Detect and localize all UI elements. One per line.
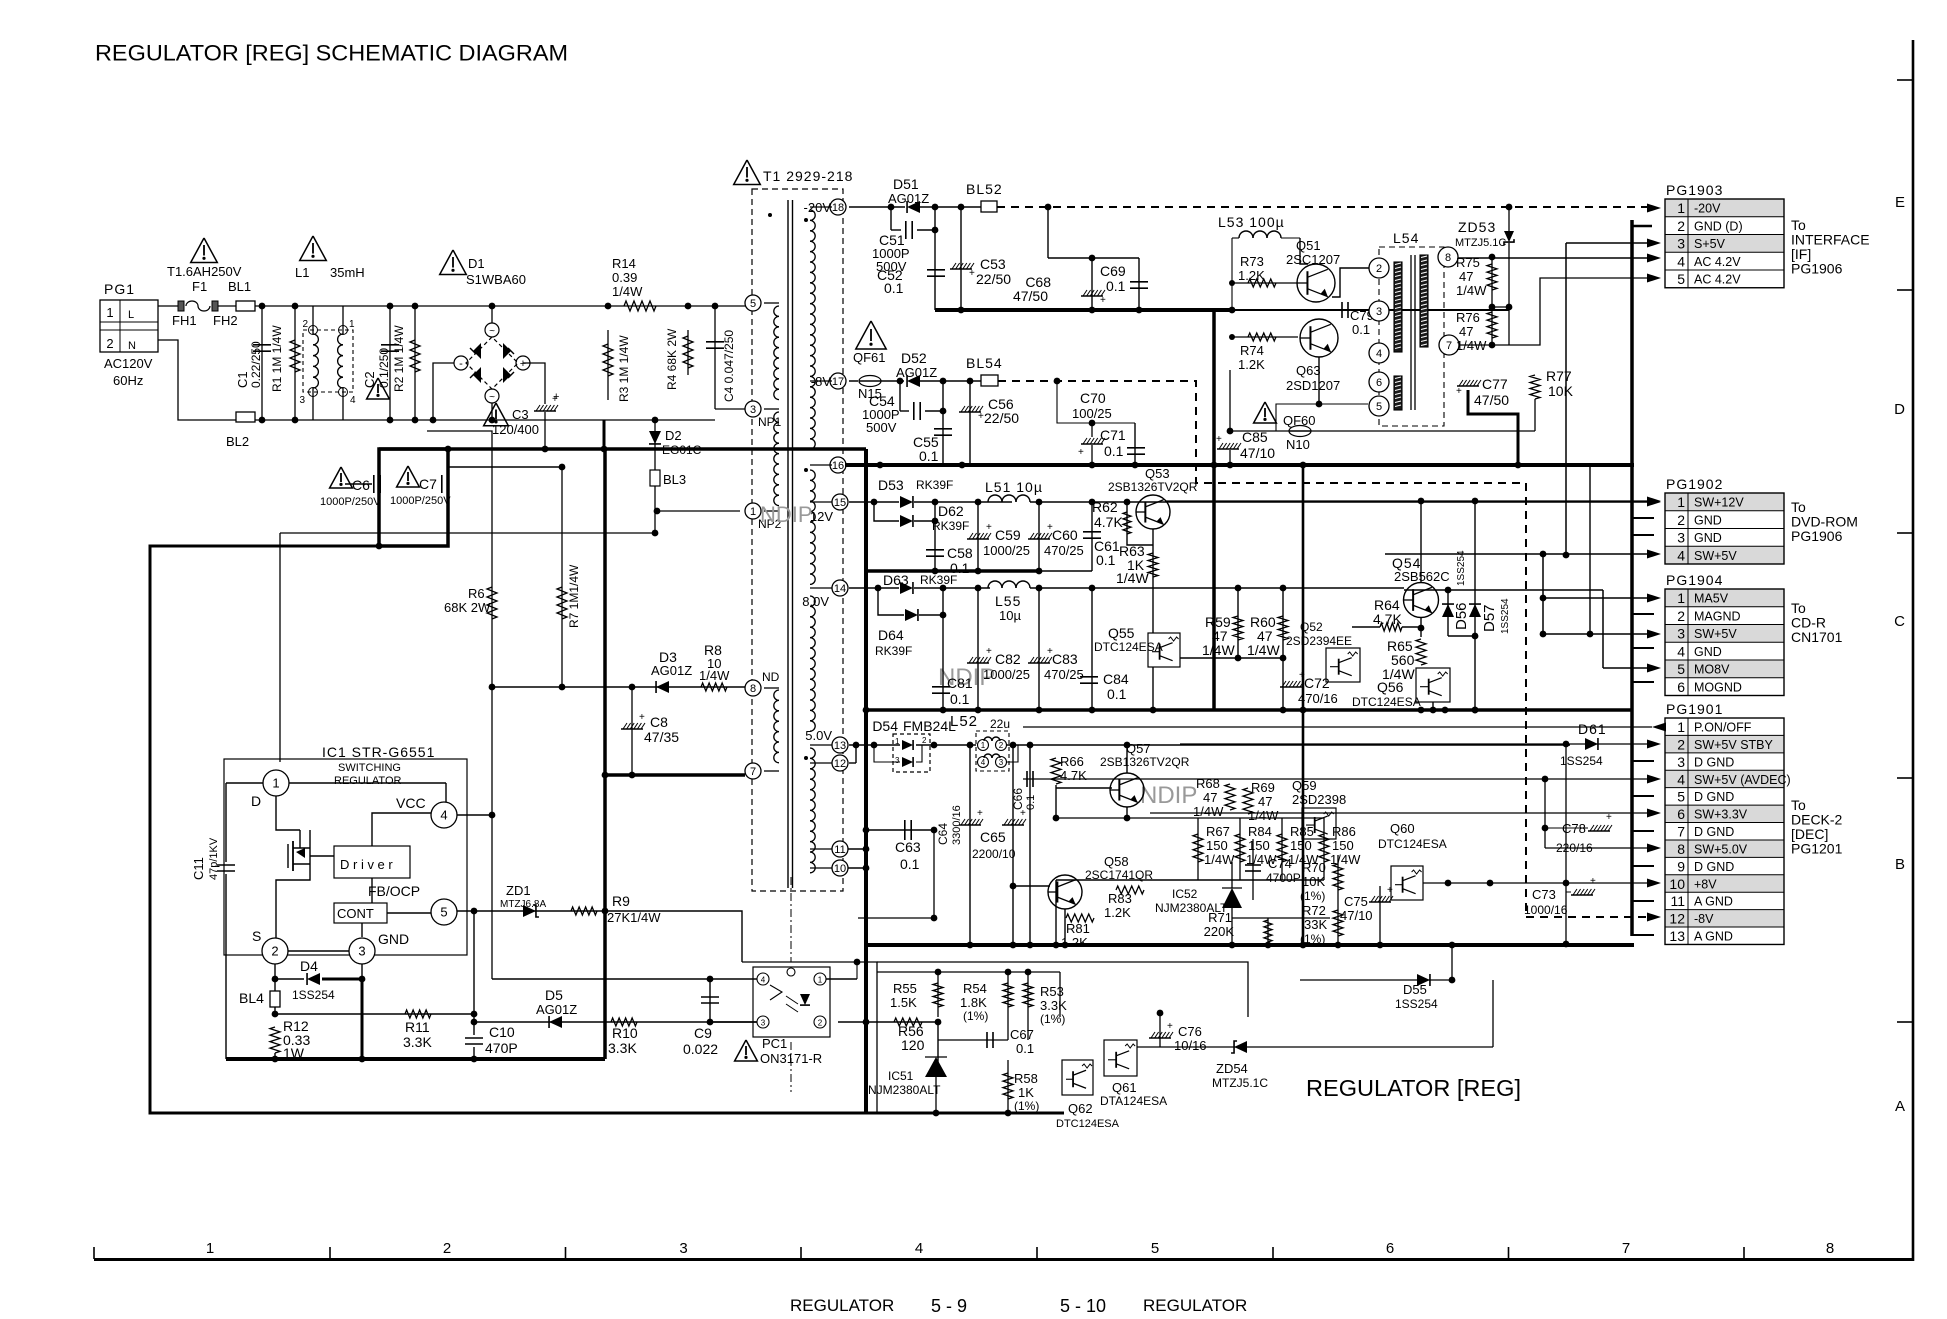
svg-text:500V: 500V	[866, 420, 897, 435]
svg-text:C53: C53	[980, 256, 1006, 272]
svg-text:13: 13	[1669, 928, 1685, 944]
svg-text:3: 3	[999, 758, 1004, 767]
svg-text:D: D	[1894, 401, 1905, 418]
svg-text:5.0V: 5.0V	[805, 728, 832, 743]
svg-text:1: 1	[818, 976, 823, 985]
svg-text:SW+5V (AVDEC): SW+5V (AVDEC)	[1694, 773, 1791, 787]
svg-text:-20V: -20V	[1694, 202, 1721, 216]
svg-text:1: 1	[981, 741, 986, 750]
svg-text:(1%): (1%)	[1300, 889, 1325, 903]
svg-text:R70: R70	[1302, 860, 1326, 875]
svg-text:1000/25: 1000/25	[983, 667, 1030, 682]
svg-text:AC120V: AC120V	[104, 356, 153, 371]
svg-text:0.22/250: 0.22/250	[249, 341, 263, 388]
svg-text:47p/1KV: 47p/1KV	[208, 837, 220, 880]
svg-text:150: 150	[1206, 838, 1228, 853]
svg-text:8: 8	[1677, 841, 1685, 857]
svg-text:7: 7	[1446, 340, 1452, 352]
svg-text:F1: F1	[192, 279, 207, 294]
svg-text:C77: C77	[1482, 376, 1508, 392]
svg-text:4: 4	[440, 808, 447, 823]
svg-text:R1 1M 1/4W: R1 1M 1/4W	[270, 325, 284, 392]
svg-text:C70: C70	[1080, 390, 1106, 406]
svg-text:10: 10	[1669, 876, 1685, 892]
svg-text:C58: C58	[947, 545, 973, 561]
svg-text:4: 4	[1677, 253, 1685, 269]
svg-text:6: 6	[1386, 1240, 1394, 1257]
svg-text:R77: R77	[1546, 368, 1572, 384]
svg-text:1SS254: 1SS254	[1395, 997, 1438, 1011]
svg-text:+: +	[1216, 434, 1222, 445]
svg-text:Q62: Q62	[1068, 1101, 1093, 1116]
svg-text:FMB24L: FMB24L	[903, 718, 956, 734]
svg-text:Q51: Q51	[1296, 238, 1321, 253]
svg-text:AG01Z: AG01Z	[888, 191, 929, 206]
svg-text:0.022: 0.022	[683, 1041, 718, 1057]
svg-text:2: 2	[1677, 608, 1685, 624]
svg-text:1.2K: 1.2K	[1104, 905, 1131, 920]
svg-text:35mH: 35mH	[330, 265, 365, 280]
svg-text:150: 150	[1332, 838, 1354, 853]
svg-text:47: 47	[1203, 790, 1217, 805]
svg-text:2: 2	[271, 944, 278, 959]
svg-text:1/4W: 1/4W	[699, 668, 730, 683]
svg-text:15: 15	[834, 497, 846, 509]
svg-text:L: L	[128, 309, 134, 321]
svg-text:47/10: 47/10	[1340, 908, 1373, 923]
svg-text:FH1: FH1	[172, 313, 197, 328]
svg-text:3: 3	[679, 1240, 687, 1257]
svg-text:10: 10	[834, 863, 846, 875]
svg-text:470/25: 470/25	[1044, 667, 1084, 682]
svg-text:4: 4	[981, 758, 986, 767]
svg-text:C3: C3	[512, 407, 529, 422]
svg-text:VCC: VCC	[396, 795, 426, 811]
svg-text:8: 8	[750, 683, 756, 695]
svg-text:SW+12V: SW+12V	[1694, 496, 1744, 510]
svg-text:3: 3	[1677, 754, 1685, 770]
svg-text:1: 1	[1677, 590, 1685, 606]
svg-text:C67: C67	[1010, 1027, 1034, 1042]
svg-text:Q61: Q61	[1112, 1080, 1137, 1095]
svg-text:4: 4	[761, 976, 766, 985]
svg-text:GND (D): GND (D)	[1694, 219, 1743, 233]
svg-text:4.7K: 4.7K	[1094, 514, 1123, 530]
svg-text:D GND: D GND	[1694, 755, 1734, 769]
svg-text:DTC124ESA: DTC124ESA	[1378, 837, 1447, 851]
svg-text:R4 68K 2W: R4 68K 2W	[665, 328, 679, 390]
svg-text:S1WBA60: S1WBA60	[466, 272, 526, 287]
svg-text:PG1906: PG1906	[1791, 261, 1843, 277]
svg-text:D1: D1	[468, 256, 485, 271]
svg-text:R9: R9	[612, 893, 630, 909]
svg-text:0.1: 0.1	[1106, 278, 1126, 294]
svg-text:3: 3	[1376, 306, 1382, 318]
svg-text:12: 12	[834, 758, 846, 770]
svg-text:13: 13	[834, 740, 846, 752]
svg-text:-8V: -8V	[1694, 912, 1714, 926]
svg-text:5: 5	[1677, 661, 1685, 677]
svg-text:R6: R6	[468, 586, 485, 601]
svg-text:SW+5V: SW+5V	[1694, 549, 1737, 563]
svg-text:470/25: 470/25	[1044, 543, 1084, 558]
svg-text:+: +	[1606, 812, 1612, 823]
svg-text:2: 2	[1376, 263, 1382, 275]
svg-text:1000P/250V: 1000P/250V	[320, 496, 381, 508]
svg-text:R84: R84	[1248, 824, 1272, 839]
svg-text:4: 4	[1677, 643, 1685, 659]
svg-text:47: 47	[1459, 269, 1473, 284]
svg-text:4: 4	[350, 395, 356, 406]
svg-text:1/4W: 1/4W	[1116, 570, 1149, 586]
svg-text:P.ON/OFF: P.ON/OFF	[1694, 721, 1752, 735]
svg-text:1.2K: 1.2K	[1061, 935, 1088, 950]
svg-text:2SB1326TV2QR: 2SB1326TV2QR	[1100, 755, 1190, 769]
svg-text:10µ: 10µ	[999, 608, 1021, 623]
svg-text:3.3K: 3.3K	[1040, 998, 1067, 1013]
svg-text:DTC124ESA: DTC124ESA	[1352, 695, 1421, 709]
svg-text:BL3: BL3	[663, 472, 686, 487]
svg-text:E: E	[1895, 194, 1905, 211]
svg-text:C65: C65	[980, 829, 1006, 845]
svg-text:4: 4	[915, 1240, 923, 1257]
svg-text:CONT: CONT	[337, 906, 374, 921]
svg-text:BL52: BL52	[966, 181, 1003, 197]
svg-text:A GND: A GND	[1694, 895, 1733, 909]
svg-text:D55: D55	[1403, 982, 1427, 997]
svg-text:R54: R54	[963, 981, 987, 996]
svg-text:0.1: 0.1	[1016, 1041, 1034, 1056]
svg-text:A: A	[1895, 1098, 1905, 1115]
svg-text:1/4W: 1/4W	[612, 284, 643, 299]
svg-text:47/35: 47/35	[644, 729, 679, 745]
svg-text:10/16: 10/16	[1174, 1038, 1207, 1053]
svg-text:14: 14	[834, 583, 846, 595]
svg-text:11: 11	[1670, 893, 1685, 909]
svg-text:AC 4.2V: AC 4.2V	[1694, 273, 1741, 287]
svg-text:3.3K: 3.3K	[608, 1040, 637, 1056]
svg-text:R7 1M1/4W: R7 1M1/4W	[567, 564, 581, 628]
svg-text:220/16: 220/16	[1556, 841, 1593, 855]
svg-text:+: +	[553, 391, 559, 403]
svg-text:4: 4	[1677, 547, 1685, 563]
svg-text:D64: D64	[878, 627, 904, 643]
svg-text:C81: C81	[947, 675, 973, 691]
svg-text:2SC1741QR: 2SC1741QR	[1085, 868, 1153, 882]
svg-text:5: 5	[1677, 789, 1685, 805]
svg-text:1: 1	[106, 305, 113, 320]
svg-text:R72: R72	[1302, 903, 1326, 918]
svg-text:1.2K: 1.2K	[1238, 268, 1265, 283]
svg-text:A GND: A GND	[1694, 930, 1733, 944]
svg-text:T1.6AH250V: T1.6AH250V	[167, 264, 242, 279]
svg-text:2200/10: 2200/10	[972, 847, 1016, 861]
svg-text:(1%): (1%)	[963, 1009, 988, 1023]
svg-text:+: +	[969, 268, 975, 279]
svg-text:D4: D4	[300, 958, 318, 974]
svg-text:PG1201: PG1201	[1791, 841, 1843, 857]
svg-text:0.39: 0.39	[612, 270, 637, 285]
svg-text:R66: R66	[1060, 754, 1084, 769]
svg-text:8: 8	[1826, 1240, 1834, 1257]
svg-text:4.7K: 4.7K	[1060, 768, 1087, 783]
svg-text:2SD2398: 2SD2398	[1292, 792, 1346, 807]
svg-text:2: 2	[1677, 736, 1685, 752]
svg-text:2: 2	[443, 1240, 451, 1257]
svg-text:3: 3	[750, 404, 756, 416]
svg-text:PC1: PC1	[762, 1036, 787, 1051]
svg-text:C11: C11	[191, 857, 206, 880]
svg-text:D52: D52	[901, 350, 927, 366]
svg-text:2: 2	[106, 336, 113, 351]
svg-text:C6: C6	[352, 477, 370, 493]
svg-text:150: 150	[1248, 838, 1270, 853]
svg-text:SW+5V: SW+5V	[1694, 627, 1737, 641]
svg-text:1: 1	[750, 506, 756, 518]
svg-text:PG1902: PG1902	[1666, 476, 1723, 492]
svg-text:L53 100µ: L53 100µ	[1218, 214, 1285, 230]
svg-text:BL2: BL2	[226, 434, 249, 449]
svg-text:5: 5	[1151, 1240, 1159, 1257]
svg-text:6: 6	[1677, 679, 1685, 695]
svg-text:3: 3	[1677, 530, 1685, 546]
svg-text:1/4W: 1/4W	[1193, 804, 1224, 819]
svg-text:1SS254: 1SS254	[1456, 550, 1467, 586]
svg-text:R62: R62	[1092, 499, 1118, 515]
svg-text:N: N	[128, 340, 136, 352]
svg-text:BL1: BL1	[228, 279, 251, 294]
svg-text:REGULATOR [REG]: REGULATOR [REG]	[1306, 1075, 1521, 1101]
svg-text:8: 8	[1445, 252, 1451, 264]
svg-text:SWITCHING: SWITCHING	[338, 762, 401, 774]
svg-text:PG1: PG1	[104, 281, 135, 297]
svg-text:RK39F: RK39F	[932, 519, 969, 533]
svg-text:1SS254: 1SS254	[292, 988, 335, 1002]
svg-text:10K: 10K	[1548, 383, 1574, 399]
svg-text:2: 2	[1677, 218, 1685, 234]
svg-text:R85: R85	[1290, 824, 1314, 839]
svg-text:0.1: 0.1	[950, 691, 970, 707]
svg-text:Q60: Q60	[1390, 821, 1415, 836]
svg-text:C84: C84	[1103, 671, 1129, 687]
svg-text:Q59: Q59	[1292, 778, 1317, 793]
svg-text:PG1901: PG1901	[1666, 701, 1723, 717]
svg-text:GND: GND	[1694, 645, 1722, 659]
svg-text:L54: L54	[1393, 230, 1419, 246]
svg-text:REGULATOR: REGULATOR	[334, 775, 401, 787]
svg-text:3.3K: 3.3K	[403, 1034, 432, 1050]
svg-text:NDIP: NDIP	[1140, 782, 1197, 809]
svg-text:Q56: Q56	[1377, 679, 1404, 695]
svg-text:3: 3	[1677, 626, 1685, 642]
svg-text:0.1: 0.1	[1025, 795, 1037, 810]
svg-text:1/4W: 1/4W	[1204, 852, 1235, 867]
svg-text:5: 5	[1376, 401, 1382, 413]
svg-text:C71: C71	[1100, 427, 1126, 443]
svg-text:SW+5.0V: SW+5.0V	[1694, 842, 1748, 856]
svg-text:0.1: 0.1	[900, 856, 920, 872]
svg-text:MTZJ5.1C: MTZJ5.1C	[1212, 1076, 1268, 1090]
svg-text:DTC124ESA: DTC124ESA	[1056, 1118, 1120, 1130]
svg-text:47/50: 47/50	[1474, 392, 1509, 408]
svg-text:C82: C82	[995, 651, 1021, 667]
svg-text:IC52: IC52	[1172, 887, 1198, 901]
svg-text:33K: 33K	[1304, 917, 1327, 932]
svg-text:C76: C76	[1178, 1024, 1202, 1039]
svg-text:6: 6	[1677, 806, 1685, 822]
svg-text:1/4W: 1/4W	[1456, 283, 1487, 298]
svg-text:C: C	[1894, 613, 1905, 630]
svg-text:3: 3	[761, 1019, 766, 1028]
svg-text:2: 2	[818, 1019, 823, 1028]
svg-text:D56: D56	[1453, 602, 1470, 630]
svg-text:C63: C63	[895, 839, 921, 855]
svg-text:1/4W: 1/4W	[1248, 808, 1279, 823]
svg-text:17: 17	[832, 376, 844, 388]
svg-text:T1 2929-218: T1 2929-218	[763, 168, 853, 184]
svg-text:DTA124ESA: DTA124ESA	[1100, 1094, 1167, 1108]
svg-text:8.0V: 8.0V	[802, 594, 829, 609]
svg-text:QF61: QF61	[853, 350, 886, 365]
svg-text:C59: C59	[995, 527, 1021, 543]
svg-text:C10: C10	[489, 1024, 515, 1040]
svg-text:0.1: 0.1	[1104, 443, 1124, 459]
svg-text:+: +	[1456, 386, 1462, 397]
svg-text:R2 1M 1/4W: R2 1M 1/4W	[392, 325, 406, 392]
svg-text:12: 12	[1669, 911, 1685, 927]
svg-text:~: ~	[489, 392, 495, 403]
svg-text:+: +	[1590, 876, 1596, 887]
svg-text:AG01Z: AG01Z	[651, 663, 692, 678]
svg-text:1: 1	[1677, 200, 1685, 216]
svg-text:47/10: 47/10	[1240, 445, 1275, 461]
svg-text:4: 4	[1677, 771, 1685, 787]
svg-text:150: 150	[1290, 838, 1312, 853]
svg-text:C1: C1	[235, 371, 250, 388]
svg-text:C74: C74	[1268, 856, 1292, 871]
svg-text:AG01Z: AG01Z	[536, 1002, 577, 1017]
svg-text:REGULATOR [REG] SCHEMATIC DIAG: REGULATOR [REG] SCHEMATIC DIAGRAM	[95, 41, 568, 66]
svg-text:R10: R10	[612, 1025, 638, 1041]
svg-text:+: +	[520, 358, 526, 370]
svg-text:C4 0.047/250: C4 0.047/250	[722, 330, 736, 402]
svg-text:2SB562C: 2SB562C	[1394, 569, 1450, 584]
svg-text:10K: 10K	[1302, 874, 1325, 889]
svg-text:0.1: 0.1	[919, 448, 939, 464]
svg-text:B: B	[1895, 856, 1905, 873]
svg-text:SW+3.3V: SW+3.3V	[1694, 808, 1748, 822]
svg-text:+: +	[1100, 295, 1106, 306]
svg-text:1SS254: 1SS254	[1500, 598, 1511, 634]
svg-text:GND: GND	[1694, 531, 1722, 545]
svg-text:22/50: 22/50	[984, 410, 1019, 426]
svg-text:MA5V: MA5V	[1694, 592, 1729, 606]
svg-text:GND: GND	[378, 931, 409, 947]
svg-text:PG1904: PG1904	[1666, 572, 1723, 588]
svg-text:R3 1M 1/4W: R3 1M 1/4W	[617, 335, 631, 402]
svg-text:R76: R76	[1456, 310, 1480, 325]
svg-text:S+5V: S+5V	[1694, 237, 1726, 251]
svg-text:7: 7	[750, 766, 756, 778]
svg-text:C85: C85	[1242, 429, 1268, 445]
svg-text:+: +	[1387, 885, 1393, 896]
svg-text:47: 47	[1459, 324, 1473, 339]
svg-text:1000P/250V: 1000P/250V	[390, 495, 451, 507]
svg-text:D54: D54	[872, 718, 898, 734]
svg-text:100/25: 100/25	[1072, 406, 1112, 421]
svg-text:R14: R14	[612, 256, 636, 271]
svg-text:18: 18	[832, 202, 844, 214]
svg-text:R67: R67	[1206, 824, 1230, 839]
svg-text:SW+5V STBY: SW+5V STBY	[1694, 738, 1774, 752]
svg-text:Q63: Q63	[1296, 363, 1321, 378]
svg-text:FH2: FH2	[213, 313, 238, 328]
svg-text:REGULATOR: REGULATOR	[1143, 1296, 1247, 1315]
svg-text:ND: ND	[762, 670, 780, 684]
svg-text:R11: R11	[405, 1019, 430, 1035]
svg-text:5 - 10: 5 - 10	[1060, 1296, 1106, 1316]
svg-text:0.1/250: 0.1/250	[377, 348, 391, 388]
svg-text:R74: R74	[1240, 343, 1264, 358]
svg-text:L1: L1	[295, 265, 309, 280]
svg-text:C9: C9	[694, 1025, 712, 1041]
svg-text:Q55: Q55	[1108, 625, 1135, 641]
svg-text:C7: C7	[419, 476, 437, 492]
svg-text:GND: GND	[1694, 513, 1722, 527]
svg-text:+: +	[986, 646, 992, 657]
svg-text:C64: C64	[936, 823, 950, 845]
svg-text:R58: R58	[1014, 1071, 1038, 1086]
svg-text:47: 47	[1258, 794, 1272, 809]
svg-text:AG01Z: AG01Z	[896, 365, 937, 380]
svg-text:0.1: 0.1	[884, 280, 904, 296]
svg-text:2: 2	[1677, 512, 1685, 528]
svg-text:D62: D62	[938, 503, 964, 519]
svg-text:47/50: 47/50	[1013, 288, 1048, 304]
svg-text:1: 1	[1677, 494, 1685, 510]
svg-text:C8: C8	[650, 714, 668, 730]
svg-text:D GND: D GND	[1694, 790, 1734, 804]
svg-text:0.1: 0.1	[1352, 322, 1370, 337]
svg-text:5: 5	[440, 905, 447, 920]
svg-text:3: 3	[299, 395, 305, 406]
svg-text:0.1: 0.1	[1096, 552, 1116, 568]
svg-text:1/4W: 1/4W	[1202, 642, 1235, 658]
svg-text:D2: D2	[665, 428, 682, 443]
svg-text:1: 1	[206, 1240, 214, 1257]
svg-text:1: 1	[1677, 719, 1685, 735]
svg-text:MOGND: MOGND	[1694, 680, 1742, 694]
svg-text:C2: C2	[362, 371, 377, 388]
svg-text:2SD2394EE: 2SD2394EE	[1286, 634, 1352, 648]
svg-text:FB/OCP: FB/OCP	[368, 883, 420, 899]
svg-text:4: 4	[1376, 348, 1382, 360]
svg-text:MTZJ5.1C: MTZJ5.1C	[1455, 237, 1506, 249]
svg-text:RK39F: RK39F	[916, 478, 953, 492]
svg-text:RK39F: RK39F	[875, 644, 912, 658]
svg-text:R73: R73	[1240, 254, 1264, 269]
svg-text:C69: C69	[1100, 263, 1126, 279]
svg-text:MAGND: MAGND	[1694, 609, 1741, 623]
svg-text:120: 120	[901, 1037, 925, 1053]
svg-text:22u: 22u	[990, 717, 1010, 731]
svg-text:3: 3	[358, 944, 365, 959]
svg-text:3: 3	[895, 756, 900, 765]
svg-text:NDIP: NDIP	[760, 502, 813, 527]
svg-text:NP1: NP1	[758, 415, 782, 429]
svg-text:L51 10µ: L51 10µ	[985, 479, 1043, 495]
svg-text:D51: D51	[893, 176, 919, 192]
